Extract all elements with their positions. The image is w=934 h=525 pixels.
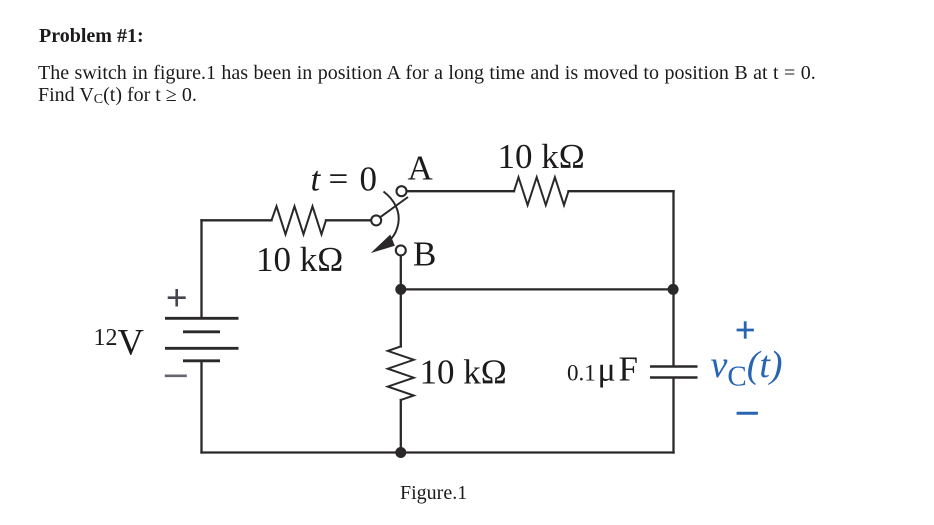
capacitor plus sign (737, 321, 754, 338)
battery V1 plates (165, 318, 239, 361)
wire switch B down to node (400, 255, 402, 289)
wire bottom horizontal (202, 451, 674, 453)
switch terminal common (371, 215, 381, 225)
wire right vertical upper (672, 191, 674, 289)
wire left vertical bottom (battery - to bottom) (200, 362, 202, 453)
resistor R2 10k top zigzag (514, 177, 569, 205)
problem statement line 2 (38, 84, 197, 107)
svg-text:B: B (413, 234, 436, 273)
capacitor minus sign (737, 412, 758, 415)
node junction right (668, 284, 679, 295)
switch SW1 arrowhead (371, 235, 395, 254)
wire capacitor bottom lead (672, 379, 674, 453)
svg-text:10 kΩ: 10 kΩ (420, 353, 507, 392)
wire resistor R2 to top-right corner (569, 190, 674, 192)
resistor R1 10k left zigzag (272, 206, 327, 234)
battery plus sign (168, 289, 186, 307)
svg-text:10 kΩ: 10 kΩ (256, 240, 343, 279)
wire left vertical top (to battery +) (200, 220, 202, 317)
wire resistor R1 to switch common (326, 219, 371, 221)
wire switch A to resistor R2 (407, 190, 515, 192)
problem title (39, 25, 144, 48)
svg-text:vC(t): vC(t) (711, 344, 783, 393)
svg-text:t=0: t=0 (311, 159, 378, 198)
svg-text:12V: 12V (94, 322, 144, 363)
wire capacitor top lead (672, 289, 674, 365)
node junction B row (395, 284, 406, 295)
wire resistor R3 to bottom node (400, 400, 402, 453)
wire middle vertical to resistor R3 (400, 289, 402, 346)
capacitor C1 plates (650, 367, 698, 378)
figure caption (400, 482, 467, 505)
svg-text:10 kΩ: 10 kΩ (498, 137, 585, 176)
switch SW1 arm (380, 197, 408, 217)
wire top-left horizontal (202, 219, 272, 221)
svg-text:0.1μF: 0.1μF (567, 350, 638, 389)
wire node row horizontal (401, 288, 674, 290)
svg-text:A: A (408, 149, 434, 188)
node junction bottom (395, 447, 406, 458)
battery minus sign (165, 374, 187, 377)
resistor R3 10k vertical zigzag (388, 346, 414, 400)
switch terminal B (396, 245, 406, 255)
switch terminal A (397, 186, 407, 196)
switch SW1 motion arc (384, 192, 399, 240)
problem statement line 1 (38, 62, 816, 85)
